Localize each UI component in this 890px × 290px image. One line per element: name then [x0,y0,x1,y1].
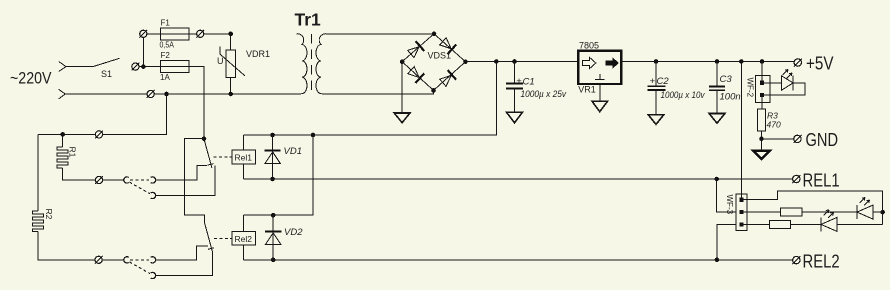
LED power indicator [781,76,793,91]
svg-text:C2: C2 [657,76,670,87]
svg-text:+5V: +5V [806,54,834,74]
wire Rel2 feed drop [244,135,313,215]
wire LED return loop [762,83,805,95]
mech dashes B1-B3 [129,262,150,274]
regulator output arrow [606,57,619,68]
junction VD2 bottom [271,258,276,263]
mech dashes A1-A2 [130,179,149,181]
junction C3 [715,59,720,64]
junction VD1 bottom [270,177,275,182]
junction pin2 REL1 [714,177,719,182]
wire R2 bottom to contact row2 [38,232,124,260]
mech dashes A1-A3 [129,182,150,194]
node REL1 terminal [793,175,800,182]
relay contact K1 arm tick [208,164,214,166]
wire WF-3 pin2 to REL1 [717,179,736,212]
svg-text:0,5A: 0,5A [160,41,175,50]
wire REL2 line [244,259,793,261]
junction VD1 top [270,133,275,138]
junction R1 top [60,132,65,137]
LED1 arrows [824,210,834,218]
transformer Tr1 primary winding [297,34,308,94]
junction bridge top [432,32,437,37]
resistor LED1 series [769,220,790,228]
svg-text:REL2: REL2 [803,252,840,272]
transformer Tr1 secondary winding [316,34,327,94]
junction WF-2 supply tap [760,59,765,64]
svg-text:VDS1: VDS1 [428,51,452,61]
svg-text:+: + [516,76,522,87]
relay contact K2 arm [205,223,213,252]
diode VD2 [272,215,274,260]
junction S1/F1/F2 [141,64,146,69]
LED power arrows [783,70,793,79]
diode VD1 [272,135,274,179]
wire N drop to left feed line [38,94,167,134]
junction LED rows right [880,210,885,215]
wire F2 output down [189,67,204,139]
svg-text:WF-3: WF-3 [725,195,734,215]
mech dashes B1-B2 [130,259,149,261]
wire bridge left to ground [401,62,403,113]
svg-text:R2: R2 [44,209,54,220]
contact socket B2 [151,257,156,263]
connector WF-3 [736,194,747,231]
contact socket A3 [151,192,156,198]
contact socket A2 [151,177,156,183]
wire throw B upper [156,246,209,260]
wire +5V to WF-2 pin1 [761,62,763,83]
wire Rel2 coil stub top [243,215,245,231]
wire WF-3 pin2 to resistor [741,211,780,213]
diode VDS1 lower-left [407,65,425,83]
junction N to lower feed [164,92,169,97]
junction bridge left [400,59,405,64]
rectifier VDS1 diamond [402,34,465,91]
ground 7805 [592,101,608,112]
junction C2 [654,59,659,64]
ground chassis [753,151,770,159]
wire junction up to F1 [143,34,160,67]
wire WF-2 pin2 to R3 [761,95,763,109]
svg-text:F2: F2 [161,51,171,60]
node N input chevron [59,89,65,99]
svg-text:C1: C1 [523,77,535,88]
capacitor C1 [514,62,516,84]
wire throw A upper [156,166,208,180]
pin WF-3.2 [739,210,743,214]
pin WF-2.2 [760,93,764,97]
wire throw A lower [156,166,215,196]
relay coil Rel1 [232,150,256,164]
ground C3 [709,114,725,124]
svg-text:1000µ x 10v: 1000µ x 10v [661,90,706,101]
junction bridge bottom [431,88,436,93]
mech dashes K2 to Rel2 [214,237,232,239]
pin WF-3.1 [739,198,743,202]
node contact row1 solder pin [95,176,102,183]
wire WF-3 pin3 to resistor [741,223,769,225]
node F1 left solder pin [140,30,147,37]
wire WF-3 pin3 to REL2 [717,224,736,259]
wire resistor to LED2 [802,211,857,213]
wire WF-2 pin1 to LED [762,82,781,84]
resistor LED2 series [781,208,802,216]
svg-text:S1: S1 [101,69,112,79]
contact plug A1 [124,177,129,183]
wire LED2 to right riser [873,211,883,213]
ground C1 [507,112,523,122]
wire +5V to WF-3 pin1 [740,62,742,200]
ground C2 [648,115,664,125]
node S1 output solder pin [132,63,139,70]
wire WF-3 pin1 loop to LED anodes [741,191,882,224]
diode VDS1 upper-left [407,41,425,59]
wire secondary top to bridge [327,33,435,35]
wire resistor to LED1 [791,223,821,225]
wire S1 pin to junction [139,66,160,68]
junction relay supply tap [494,59,499,64]
svg-text:7805: 7805 [579,41,599,51]
junction WF-3 supply tap [739,59,744,64]
wire N rail [65,93,299,95]
junction VD2 top [271,213,276,218]
wire LED1 to right riser [837,223,883,225]
node contact row2 solder pin [95,256,102,263]
mech dashes K1 to Rel1 [214,156,232,158]
node REL2 terminal [793,256,800,263]
fuse F2 [160,61,188,73]
fuse F1 [160,28,188,40]
resistor R3 [758,109,766,131]
wire pivot1 left branch to pivot2 [184,139,204,223]
wire REL1 line [244,178,793,180]
LED2 arrows [860,198,870,206]
junction VDR1 top [228,32,233,37]
junction VDR1 bottom [228,92,233,97]
svg-text:R1: R1 [68,147,78,158]
relay contact K2 arm tick [208,248,214,250]
relay coil Rel2 [232,232,256,246]
wire GND line [762,138,794,140]
wire throw B lower [156,252,213,276]
svg-text:100n: 100n [720,92,741,103]
svg-text:VD1: VD1 [284,146,302,157]
junction C1 [512,59,517,64]
wire Rel1 coil stub top [243,135,245,150]
node +5V terminal [794,59,801,66]
wire secondary bottom to bridge [327,90,434,94]
wire Rel1 coil stub bottom [243,164,245,179]
wire left feed vertical [37,134,39,211]
node feed line solder pin [95,131,102,138]
node F1 right solder pin [197,30,204,37]
capacitor C3 [716,62,718,87]
svg-text:GND: GND [806,130,839,150]
junction bridge right [463,59,468,64]
diode VDS1 upper-right [439,37,457,55]
resistor R1 [57,147,68,168]
svg-text:F1: F1 [161,18,171,27]
diode VDS1 lower-right [439,70,457,88]
svg-text:VD2: VD2 [284,227,303,238]
wire DC rail unregulated [466,61,579,63]
svg-text:VR1: VR1 [578,85,596,95]
svg-text:VDR1: VDR1 [246,49,270,59]
junction relay switch 1 pivot [202,136,207,141]
node L input chevron [59,62,66,72]
contact plug B1 [124,257,129,263]
junction GND node [759,137,764,142]
wire R1 bottom to contact row [63,168,124,180]
wire 7805 to ground [599,84,601,101]
junction Rel2 feed tap [311,133,316,138]
switch S1 arm [93,58,120,66]
svg-text:+: + [650,76,656,87]
regulator input arrow [583,57,596,68]
pin WF-3.3 [739,222,743,226]
node N solder pin [147,90,154,97]
wire relay supply drop [244,62,497,136]
regulator ground pin symbol [595,74,605,80]
varistor VDR1 [226,50,236,77]
svg-text:470: 470 [767,120,781,130]
LED2 indicator [857,205,873,219]
wire R1 top stub [62,134,64,147]
connector WF-2 [755,76,770,103]
wire L input to switch [66,66,93,68]
svg-text:Rel2: Rel2 [235,234,253,244]
svg-text:1000µ x 25v: 1000µ x 25v [521,89,568,100]
svg-text:Rel1: Rel1 [235,153,253,163]
wire DC rail 5V [621,61,794,63]
LED1 indicator [821,217,837,231]
relay contact K1 arm [204,139,212,168]
contact socket B3 [151,272,156,278]
svg-text:REL1: REL1 [803,171,840,191]
wire R3 to GND node [761,131,763,150]
svg-text:Tr1: Tr1 [295,10,322,30]
svg-text:1A: 1A [160,73,170,82]
svg-text:~220V: ~220V [10,70,52,88]
junction pin3 REL2 [715,258,720,263]
svg-text:C3: C3 [720,74,733,85]
svg-text:WF-2: WF-2 [746,78,755,98]
regulator VR1 7805 box [578,51,621,84]
wire F1 to pin [189,33,231,35]
wire Rel2 coil stub bottom [243,245,245,260]
pin WF-2.1 [760,81,764,85]
node GND terminal [794,135,801,142]
capacitor C2 [655,62,657,87]
ground bridge [394,113,410,123]
svg-text:U: U [217,56,224,66]
transformer Tr1 core [311,34,313,94]
resistor R2 [32,211,43,232]
